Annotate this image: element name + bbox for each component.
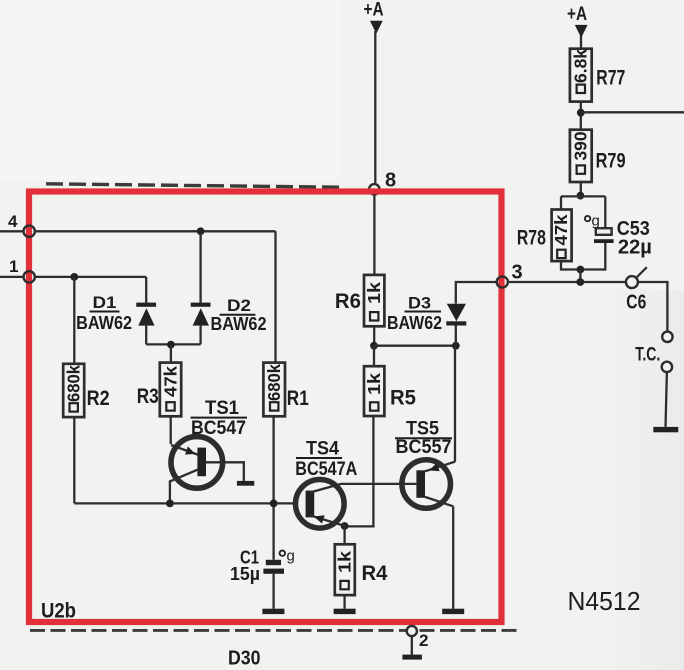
svg-text:3: 3: [512, 262, 523, 284]
svg-text:R5: R5: [390, 387, 416, 410]
square R3: [166, 402, 174, 410]
wire junction to junction D3: [374, 345, 456, 347]
svg-text:22µ: 22µ: [618, 237, 652, 259]
power +A right: [575, 25, 588, 49]
ground under C1: [262, 609, 284, 614]
wire R5 bottom to TS4 emitter junction: [345, 416, 373, 526]
wire TS4 collector to TS5 base: [341, 483, 416, 485]
resistor R3 body: [160, 363, 181, 417]
wire junction to R4: [343, 526, 345, 544]
wire R2 top: [73, 277, 75, 364]
underline TS5: [395, 437, 452, 439]
svg-text:D1: D1: [93, 293, 117, 312]
junction R1/C1 on bus: [270, 500, 278, 508]
junction top of R78/C53: [577, 192, 585, 200]
svg-text:+A: +A: [364, 0, 384, 21]
svg-text:BAW62: BAW62: [76, 313, 132, 333]
dashed module border D30 bottom: [30, 629, 517, 632]
svg-text:2: 2: [419, 631, 428, 650]
junction D2 top: [197, 227, 205, 235]
wire R3 to TS1: [170, 416, 172, 444]
svg-text:R2: R2: [87, 387, 110, 410]
svg-text:D2: D2: [227, 296, 251, 315]
wire R4 to ground: [343, 595, 345, 609]
svg-text:680k: 680k: [264, 364, 284, 401]
svg-text:R3: R3: [137, 385, 159, 408]
wire parallel top bus: [561, 195, 605, 197]
svg-text:BAW62: BAW62: [387, 313, 442, 333]
svg-text:R1: R1: [287, 387, 309, 410]
svg-text:TS1: TS1: [205, 398, 239, 419]
svg-text:TS4: TS4: [306, 439, 339, 460]
svg-text:47k: 47k: [551, 214, 571, 245]
node 2: [407, 626, 417, 655]
svg-text:680k: 680k: [64, 365, 84, 402]
wire tap to right edge: [581, 111, 684, 113]
diode D1: [136, 303, 156, 345]
ground at TS1 base: [237, 481, 254, 486]
terminal T.C. lower: [662, 362, 672, 372]
resistor R6 body: [364, 275, 384, 326]
wire T.C. to ground: [666, 372, 667, 427]
square R78: [557, 250, 565, 258]
capacitor C1: [263, 560, 284, 609]
resistor R1 body: [263, 363, 285, 417]
underline D3: [405, 311, 442, 313]
svg-text:R4: R4: [362, 562, 388, 585]
terminal T.C. upper: [662, 332, 672, 342]
wire TS5 collector to ground: [452, 506, 454, 608]
svg-text:BAW62: BAW62: [211, 314, 267, 334]
wire R3 junction down: [170, 345, 172, 363]
resistor R78 branch: [560, 196, 562, 209]
junction R3 top: [167, 341, 175, 349]
ground under node 2: [402, 655, 422, 660]
wire R78 bottom: [561, 261, 580, 269]
svg-text:47k: 47k: [160, 366, 180, 397]
svg-text:6.8k: 6.8k: [571, 49, 591, 83]
svg-text:g: g: [592, 213, 600, 230]
underline D2: [220, 314, 256, 316]
wire R79 to parallel node: [580, 182, 582, 196]
power +A main: [370, 21, 383, 183]
svg-text:4: 4: [8, 212, 18, 231]
node 3: [497, 276, 508, 287]
svg-text:BC557: BC557: [396, 437, 452, 458]
wire down to node3 wire: [579, 270, 581, 283]
svg-text:1: 1: [9, 257, 18, 276]
wire node3 to C6: [508, 281, 626, 283]
dashed module border D30 top: [46, 184, 340, 187]
wire D1 anode to D2 anode: [146, 343, 200, 345]
og polarity mark C1: [280, 548, 295, 565]
square R77: [577, 85, 585, 93]
resistor value squares: [70, 85, 586, 590]
svg-text:C6: C6: [626, 292, 646, 314]
svg-text:+A: +A: [567, 4, 587, 25]
svg-text:U2b: U2b: [41, 600, 76, 623]
junction TS1 collector on bus: [166, 500, 174, 508]
wire node4 wire down to R1: [274, 231, 276, 362]
resistor R77 body: [570, 49, 592, 102]
wire to R5: [373, 346, 375, 367]
ground under R4: [334, 609, 356, 614]
svg-text:D30: D30: [228, 647, 261, 670]
capacitor C6 link: [626, 267, 647, 288]
svg-text:N4512: N4512: [568, 588, 641, 616]
wire R2 bottom to bus: [73, 417, 75, 503]
rotated resistor values: [64, 49, 591, 573]
wire R1 bottom through bus to C1: [272, 416, 274, 560]
node 1: [0, 271, 146, 282]
svg-text:BC547A: BC547A: [295, 459, 357, 480]
resistor R2 body: [63, 364, 84, 417]
svg-text:D3: D3: [408, 294, 431, 313]
transistor TS4: [296, 480, 345, 529]
svg-text:1k: 1k: [364, 282, 384, 304]
wire node1 down to D1: [145, 277, 147, 303]
junction R2 top: [70, 273, 78, 281]
svg-text:BC547: BC547: [191, 418, 246, 439]
svg-text:8: 8: [385, 170, 396, 192]
resistor R79 body: [570, 130, 592, 182]
wire D3 junction to TS5 emitter: [454, 346, 456, 462]
resistor R5 body: [364, 366, 384, 416]
og polarity mark C53: [585, 213, 600, 230]
svg-text:R78: R78: [517, 227, 546, 250]
wire node8 to R6: [373, 194, 375, 275]
diode D2: [191, 231, 211, 344]
square R4: [340, 581, 348, 589]
svg-text:15µ: 15µ: [230, 564, 260, 584]
resistor R4 body: [335, 544, 355, 595]
wire C6 to T.C. contact: [638, 282, 668, 332]
square R6: [370, 312, 378, 320]
capacitor C53 branch: [604, 196, 606, 228]
resistor R78 body: [552, 210, 572, 262]
transistor TS1: [170, 437, 244, 504]
svg-text:R79: R79: [596, 149, 626, 172]
square R1: [270, 402, 278, 410]
node 4: [0, 226, 276, 237]
svg-text:390: 390: [571, 131, 591, 160]
wire R77 to R79: [580, 102, 582, 130]
node 8: [369, 184, 379, 194]
square R2: [70, 403, 78, 411]
transistor TS5: [402, 460, 455, 509]
junction TS4 emitter / R4: [341, 522, 349, 530]
underline TS1: [191, 417, 248, 419]
square R79: [577, 165, 585, 173]
junction R6/R5: [370, 342, 378, 350]
capacitor C53 plates: [580, 228, 613, 269]
ground under T.C.: [653, 427, 678, 432]
label underlines: [90, 312, 453, 459]
junction R77/R79 tap: [577, 109, 585, 117]
diode D3: [446, 282, 497, 346]
svg-text:T.C.: T.C.: [635, 345, 660, 366]
svg-text:R6: R6: [335, 290, 361, 313]
underline TS4: [296, 457, 342, 459]
junction D3/TS5: [452, 342, 460, 350]
junction bottom of R78/C53: [577, 266, 585, 274]
wire R6 to junction: [373, 326, 375, 345]
svg-text:R77: R77: [596, 66, 625, 89]
wire base bus R2 to TS4: [74, 502, 295, 504]
junction on node3 wire: [576, 278, 584, 286]
svg-text:g: g: [287, 548, 295, 565]
square R5: [370, 402, 378, 410]
svg-text:1k: 1k: [335, 551, 355, 573]
svg-text:1k: 1k: [364, 373, 384, 395]
underline D1: [90, 311, 120, 313]
red highlight box U2b: [29, 192, 502, 623]
ground under TS5: [442, 609, 464, 614]
